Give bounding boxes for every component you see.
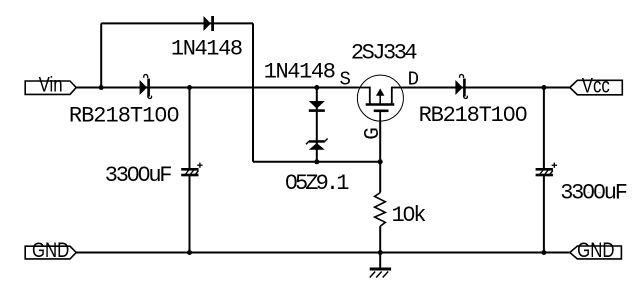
svg-text:G: G (362, 127, 385, 140)
svg-text:D: D (408, 69, 419, 91)
svg-text:GND: GND (577, 239, 614, 262)
svg-text:S: S (340, 69, 351, 91)
svg-text:3300uF: 3300uF (560, 180, 627, 205)
svg-text:05Z9.1: 05Z9.1 (285, 171, 350, 196)
svg-text:3300uF: 3300uF (105, 163, 172, 188)
svg-text:1N4148: 1N4148 (264, 60, 335, 85)
svg-text:RB218T100: RB218T100 (69, 103, 179, 128)
svg-text:RB218T100: RB218T100 (419, 103, 527, 128)
svg-text:10k: 10k (392, 203, 427, 228)
svg-text:Vin: Vin (39, 74, 63, 97)
svg-text:GND: GND (32, 239, 69, 262)
svg-text:2SJ334: 2SJ334 (351, 41, 418, 66)
svg-text:1N4148: 1N4148 (171, 37, 242, 62)
svg-text:Vcc: Vcc (582, 75, 610, 98)
